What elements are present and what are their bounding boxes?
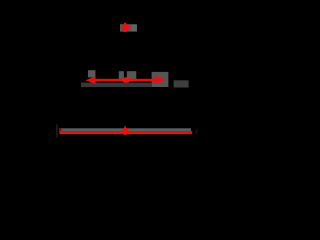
wire (bottom gray lane) — [62, 128, 192, 131]
arrowhead left (bottom line, dim red) — [59, 128, 62, 133]
label right of right arrowhead — [174, 80, 189, 87]
node A (red marker blob, top) — [121, 23, 130, 32]
label block behind right arrowhead — [152, 72, 169, 87]
tick mark (left end, bottom line, faint) — [56, 124, 57, 137]
label above middle arrow, right group — [127, 71, 137, 79]
node label (blurred gray text, top) — [120, 24, 137, 31]
label above middle arrow, left group — [119, 71, 124, 79]
node C (red dot on bottom line) — [122, 128, 129, 135]
label band below middle arrow — [81, 83, 152, 88]
arrowhead left (middle arrow) — [86, 76, 96, 84]
arrowhead right (middle arrow) — [154, 75, 165, 84]
tick above bottom dot (faint) — [124, 126, 126, 128]
wire (bottom red lane) — [60, 131, 193, 134]
node B (red dot on middle arrow) — [122, 77, 131, 83]
wire (middle red line) — [92, 79, 156, 82]
label left of middle arrow (blurred gray text) — [88, 70, 95, 77]
tick mark (right end, bottom line, very faint) — [196, 129, 198, 135]
